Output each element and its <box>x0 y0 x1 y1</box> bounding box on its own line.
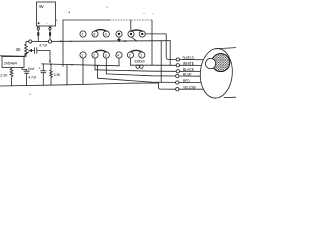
node W dot <box>71 64 73 66</box>
wire pin6 to right <box>146 33 167 35</box>
jack J1 <box>29 40 32 43</box>
svg-text:8: 8 <box>93 33 95 37</box>
bottom row pin 5 <box>127 52 133 58</box>
wire yellow vertical <box>160 41 162 83</box>
wire battery bus y41.5 <box>28 40 63 42</box>
node drain junction <box>50 63 52 65</box>
svg-text:1: 1 <box>140 54 142 58</box>
wire y41.5 inside board <box>63 40 170 43</box>
svg-text:3300uh: 3300uh <box>134 60 145 64</box>
wire pin2 drop to blue line <box>94 58 96 70</box>
inductor L1 3300uh <box>131 65 153 68</box>
bottom row pin 1 <box>80 52 86 58</box>
node on wire <box>124 40 126 42</box>
wire pin1 drop to ground bus <box>82 58 84 84</box>
wire yellow to plug <box>179 88 204 90</box>
battery clip sleeve + <box>37 32 39 36</box>
svg-text:+: + <box>39 67 41 71</box>
svg-text:10uf: 10uf <box>28 67 35 71</box>
wire pin3 drop to black line <box>105 58 107 74</box>
wire shield horizontal <box>169 58 177 60</box>
plug P1 body <box>199 47 234 99</box>
svg-text:2N5484: 2N5484 <box>4 62 17 66</box>
jumper top pins 2-3 <box>95 30 106 31</box>
battery wire - lead <box>49 30 51 40</box>
wire red feeder from W node <box>98 66 176 83</box>
wire jack to pot top <box>26 42 29 45</box>
wire white to plug <box>179 64 207 66</box>
resistor R3 3.3K <box>50 64 53 85</box>
wire yellow horizontal <box>160 88 175 90</box>
svg-text:4: 4 <box>117 54 119 58</box>
terminal black <box>176 70 179 73</box>
top row pin 4 <box>116 31 122 37</box>
svg-text:3: 3 <box>105 54 107 58</box>
arrow junction under pin 119 <box>118 38 120 42</box>
battery wire + lead <box>37 30 39 42</box>
top row pin 2 <box>92 31 98 37</box>
speck <box>106 7 107 8</box>
junction arrow into drain node <box>49 61 51 63</box>
wire pin131 drop from top edge <box>130 20 132 31</box>
capacitor C2 10uf <box>24 71 29 85</box>
Q1 gate lead diagonal <box>24 52 29 57</box>
top row pin 5 <box>128 31 134 37</box>
svg-text:9: 9 <box>105 33 107 37</box>
terminal yellow <box>176 88 179 91</box>
plug barrel top <box>214 48 236 49</box>
jumper top pins 5-6 <box>131 30 142 31</box>
svg-text:3K: 3K <box>16 47 21 52</box>
terminal red <box>176 81 179 84</box>
battery snap terminal - <box>49 26 51 30</box>
bottom row pin 6 <box>139 52 145 58</box>
top row pin 6 <box>139 31 145 37</box>
jumper bottom pins 2-3 <box>95 50 106 52</box>
wire pin131 diagonal to bus <box>132 37 137 41</box>
speck <box>56 20 57 21</box>
jack J2 <box>48 40 51 43</box>
battery B1 9v <box>37 2 56 26</box>
plug cable cross-section hatched <box>212 54 230 72</box>
bottom row pin 2 <box>92 52 98 58</box>
pot wiper arrow <box>29 50 33 52</box>
svg-text:4.7uf: 4.7uf <box>28 76 36 80</box>
terminal white <box>176 64 179 67</box>
node at box edge <box>60 41 62 43</box>
wire drain bus W <box>42 64 120 66</box>
svg-text:3.3K: 3.3K <box>54 73 62 77</box>
svg-text:1: 1 <box>81 54 83 58</box>
wire shield vertical <box>166 34 168 60</box>
resistor R2 2.2K <box>10 68 13 86</box>
battery clip sleeve - <box>49 32 51 36</box>
speck <box>144 13 145 14</box>
wire ground bus red <box>0 83 159 86</box>
terminal shield <box>176 58 179 61</box>
svg-text:2.2K: 2.2K <box>0 74 8 78</box>
speck <box>29 94 30 95</box>
terminal blue <box>176 74 179 77</box>
potentiometer R1 3K <box>25 44 28 56</box>
speck on top edge <box>69 12 70 13</box>
wire blue to plug <box>179 75 204 77</box>
junction blob on wire <box>70 41 72 43</box>
wire blue line <box>106 74 176 76</box>
svg-text:4.7uf: 4.7uf <box>39 44 47 48</box>
terminal board outline <box>62 20 64 67</box>
plug inner hole <box>206 58 216 68</box>
wire shield to plug <box>179 59 209 61</box>
wire pin5 drop to choke <box>130 58 132 65</box>
svg-text:2: 2 <box>93 54 95 58</box>
wire white drop x170 <box>169 41 171 65</box>
svg-text:2: 2 <box>129 54 131 58</box>
jumper bottom pins 5-6 <box>131 50 142 52</box>
wire source line y56 <box>0 55 26 58</box>
bottom row pin 4 <box>116 52 122 58</box>
wire black line <box>95 70 176 72</box>
bottom row pin 3 <box>103 52 109 58</box>
wire white line <box>152 64 176 66</box>
speck <box>153 13 154 14</box>
capacitor C1 4.7uf plates <box>35 48 37 54</box>
top row pin 1 <box>80 31 86 37</box>
wire Q1 to C2 <box>22 68 27 72</box>
wire C1 to gate node <box>37 51 50 63</box>
svg-text:7: 7 <box>81 33 83 37</box>
wire black to plug <box>179 70 205 72</box>
top row pin 3 <box>103 31 109 37</box>
battery snap terminal + <box>37 26 39 30</box>
capacitor C3 4.7uf electrolytic <box>41 64 46 85</box>
wire pin4 drop to W <box>118 58 120 66</box>
node W red junction <box>97 65 99 67</box>
wire red to plug <box>179 82 204 84</box>
wire R3 node to ground bus <box>66 65 68 85</box>
plug barrel bottom <box>224 96 236 98</box>
transistor Q1 2N5484 <box>2 57 24 68</box>
